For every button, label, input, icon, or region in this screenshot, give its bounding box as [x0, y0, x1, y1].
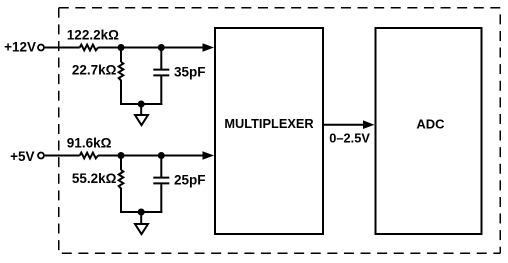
dashed package border top edge	[59, 7, 501, 9]
bottom wire 1	[120, 103, 162, 105]
resistor R2 22.7k (vertical)	[119, 62, 124, 83]
svg-text:ADC: ADC	[416, 116, 445, 131]
ground stub 1	[140, 104, 142, 115]
wire R3 to node A2	[98, 155, 121, 157]
svg-text:91.6kΩ: 91.6kΩ	[67, 136, 112, 151]
svg-text:MULTIPLEXER: MULTIPLEXER	[224, 116, 313, 131]
bottom wire 2	[120, 211, 162, 213]
resistor R1 122.2k	[80, 45, 98, 51]
arrowhead into MUX input 1	[203, 43, 215, 52]
ground symbol 1	[135, 115, 148, 125]
wire node A1 down to R2	[120, 48, 122, 63]
terminal +12V	[38, 45, 44, 51]
wire node B1 down to C1	[160, 48, 162, 70]
node A2 junction	[118, 152, 125, 159]
dashed package border bottom edge	[59, 252, 501, 254]
ground stub 2	[140, 212, 142, 223]
node B1 junction	[158, 44, 165, 51]
resistor R4 55.2k (vertical)	[119, 170, 124, 191]
terminal +5V	[38, 153, 44, 159]
capacitor C1 35pF	[153, 70, 169, 76]
capacitor C2 25pF	[153, 178, 169, 184]
ground symbol 2	[135, 224, 148, 234]
multiplexer U1 box	[215, 28, 323, 234]
wire R1 to node A1	[98, 47, 121, 49]
wire MUX output to ADC	[324, 124, 364, 126]
svg-text:25pF: 25pF	[174, 172, 206, 187]
arrowhead into MUX input 2	[203, 151, 215, 160]
wire terminal +5V to R3	[45, 155, 80, 157]
wire C2 to bottom wire 2	[160, 183, 162, 213]
wire node B2 to MUX input 2	[161, 155, 204, 157]
wire node A1 to node B1	[121, 47, 161, 49]
bottom node 2 junction	[138, 209, 145, 216]
wire node A2 to node B2	[121, 155, 161, 157]
svg-text:+5V: +5V	[10, 149, 34, 164]
bottom node 1 junction	[138, 101, 145, 108]
ADC U2 box	[376, 28, 482, 234]
resistor R3 91.6k	[80, 153, 98, 159]
node B2 junction	[158, 152, 165, 159]
wire R4 to bottom node 2	[120, 191, 122, 213]
svg-text:55.2kΩ: 55.2kΩ	[72, 171, 117, 186]
wire node A2 down to R4	[120, 156, 122, 171]
dashed package border right edge	[499, 8, 501, 254]
arrowhead into ADC	[363, 120, 375, 129]
wire C1 to bottom wire 1	[160, 75, 162, 105]
svg-text:22.7kΩ: 22.7kΩ	[72, 63, 117, 78]
svg-text:0–2.5V: 0–2.5V	[329, 131, 370, 146]
dashed package border left edge	[58, 8, 60, 254]
wire R2 to bottom node 1	[120, 83, 122, 105]
wire node B1 to MUX input 1	[161, 47, 204, 49]
svg-text:35pF: 35pF	[174, 64, 206, 79]
wire node B2 down to C2	[160, 156, 162, 178]
svg-text:+12V: +12V	[4, 40, 36, 55]
svg-text:122.2kΩ: 122.2kΩ	[67, 27, 119, 42]
wire terminal +12V to R1	[45, 47, 80, 49]
node A1 junction	[118, 44, 125, 51]
